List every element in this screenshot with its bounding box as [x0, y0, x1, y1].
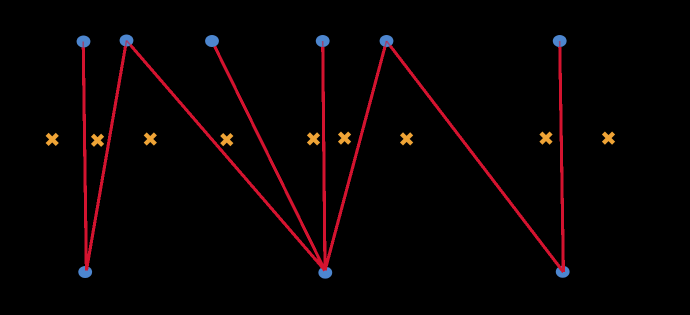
marker X2	[92, 135, 102, 145]
marker X6	[339, 133, 349, 143]
node B1	[78, 266, 92, 278]
marker X1	[47, 134, 57, 144]
node B3	[556, 266, 570, 278]
wire stub T5a	[385, 41, 387, 47]
node B2	[318, 267, 332, 279]
wire stub T4	[322, 41, 324, 47]
wire stub T2a	[125, 41, 126, 47]
wire stub T2b	[127, 41, 131, 46]
marker X9	[603, 133, 613, 143]
marker X8	[541, 133, 551, 143]
wire T3-B2	[215, 46, 325, 270]
node T4	[316, 35, 330, 47]
wire T2-B1	[86, 46, 125, 270]
node T6	[553, 35, 567, 47]
wire T2-B2	[131, 45, 325, 270]
marker X7	[402, 134, 412, 144]
marker X5	[308, 134, 318, 144]
wire stub T6	[559, 41, 561, 47]
wire T5-B2	[325, 47, 385, 271]
node T1	[77, 36, 91, 48]
wire T5-B3	[390, 46, 563, 272]
node T5	[380, 35, 394, 47]
wire stub T1	[82, 42, 84, 48]
node T3	[205, 35, 219, 47]
marker X4	[222, 135, 232, 145]
wire T4-B2	[323, 47, 325, 271]
wire T6-B3	[560, 47, 564, 272]
wire stub T5b	[387, 41, 391, 46]
marker X3	[145, 134, 155, 144]
wire T1-B1	[83, 47, 86, 270]
node T2	[120, 35, 134, 47]
